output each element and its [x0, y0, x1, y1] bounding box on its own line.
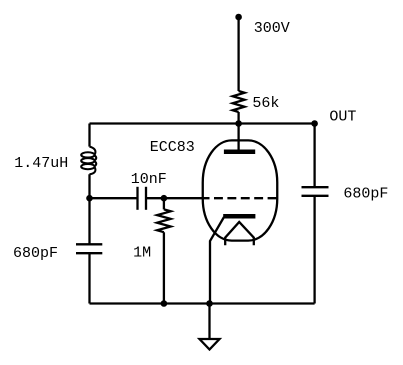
- cathode bar: [223, 214, 255, 219]
- grid dashed electrode: [214, 197, 277, 199]
- capacitor C3 10nF: [138, 187, 147, 210]
- junction cathode node: [206, 300, 213, 307]
- wire bottom horizontal: [90, 302, 315, 304]
- capacitor C2 680pF right: [302, 187, 329, 196]
- svg-text:ECC83: ECC83: [150, 139, 195, 156]
- resistor R2 1M: [157, 209, 171, 232]
- tube envelope V1: [203, 140, 278, 240]
- wire resistor bottom: [237, 112, 239, 124]
- wire left vertical middle: [88, 174, 90, 244]
- junction grid node: [161, 195, 168, 202]
- resistor R1 56k: [233, 91, 245, 112]
- ground symbol: [200, 339, 220, 350]
- wire grid right segment: [146, 197, 210, 199]
- wire grid left segment: [90, 197, 138, 199]
- wire anode lead: [237, 124, 239, 150]
- svg-text:1M: 1M: [133, 245, 151, 262]
- heater filament: [225, 222, 254, 245]
- svg-text:10nF: 10nF: [131, 171, 167, 188]
- junction left tank node: [86, 195, 93, 202]
- wire left vertical upper: [88, 124, 90, 147]
- wire 1M bottom lead: [163, 232, 165, 303]
- svg-text:680pF: 680pF: [343, 185, 388, 202]
- junction anode node: [235, 120, 242, 127]
- svg-text:300V: 300V: [254, 20, 290, 37]
- junction 1M bottom node: [161, 300, 168, 307]
- ground stem: [208, 304, 210, 340]
- wire top horizontal: [90, 122, 315, 124]
- node 300V dot: [235, 14, 242, 21]
- junction OUT node: [311, 120, 318, 127]
- cathode lead: [210, 217, 224, 304]
- svg-text:680pF: 680pF: [13, 245, 58, 262]
- anode plate bar: [224, 149, 255, 154]
- wire right vertical lower: [313, 196, 315, 304]
- svg-text:1.47uH: 1.47uH: [14, 155, 68, 172]
- wire 1M top lead: [163, 198, 165, 209]
- svg-text:56k: 56k: [252, 95, 279, 112]
- wire right vertical upper: [313, 124, 315, 188]
- svg-text:OUT: OUT: [329, 109, 356, 126]
- capacitor C1 680pF left: [76, 244, 102, 253]
- wire left vertical lower: [88, 253, 90, 303]
- wire 300V supply vertical: [237, 17, 239, 91]
- inductor L1 1.47uH: [81, 147, 96, 175]
